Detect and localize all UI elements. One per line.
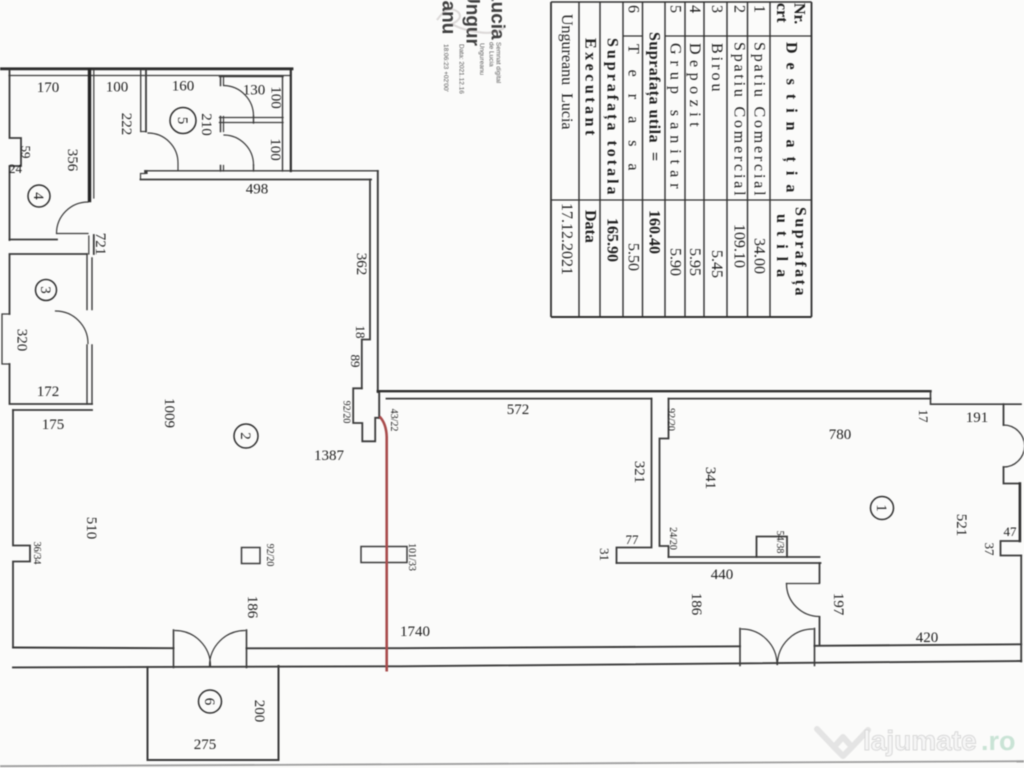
svg-text:420: 420 [916,630,939,646]
svg-text:440: 440 [711,567,734,583]
svg-text:5.45: 5.45 [708,250,725,278]
svg-text:100: 100 [268,86,284,109]
wall 321 [617,399,652,563]
svg-text:Birou: Birou [708,43,725,94]
door room4 leaf [57,233,88,235]
terrace french door arcs [175,631,245,667]
svg-text:.ro: .ro [981,726,1016,756]
svg-text:36/34: 36/34 [31,542,42,565]
svg-text:572: 572 [507,402,530,418]
wall stub below room4 door [93,235,95,254]
svg-text:222: 222 [118,113,134,136]
svg-text:2: 2 [731,5,748,13]
wall band left cap [141,174,146,180]
svg-text:24/20: 24/20 [667,527,678,550]
door jambs right french door [740,629,815,666]
door roomA jamb tick [253,116,255,123]
svg-text:Suprafața totala: Suprafața totala [603,38,621,198]
wall room1 right upper [1019,484,1022,542]
room circle 4 [28,185,50,207]
svg-text:37: 37 [982,543,997,557]
svg-text:59: 59 [19,146,34,159]
wall top inner ceiling line [9,75,290,77]
svg-text:510: 510 [83,517,99,540]
wall 572 bottom line [387,398,652,400]
svg-text:521: 521 [953,514,969,537]
svg-text:100: 100 [267,138,283,161]
svg-text:1740: 1740 [400,624,430,640]
svg-text:5.50: 5.50 [625,243,642,271]
svg-text:109.10: 109.10 [731,224,748,268]
svg-text:lajumate: lajumate [863,725,977,756]
column right edge below 572 line [378,392,380,418]
svg-text:92/20: 92/20 [341,401,352,424]
svg-text:34.00: 34.00 [751,238,768,274]
wall room2 left with niche 36/34 [13,410,30,647]
svg-text:165.90: 165.90 [604,218,621,262]
wall room1 door upper stub [819,563,821,583]
svg-text:Data: Data [582,210,599,243]
door roomB jamb tick [253,165,255,171]
bottom page edge line [0,761,1024,766]
wall top exterior [0,67,292,70]
wall band notch block [144,170,147,174]
wall room4 left with niche 59/24 [10,70,22,240]
door room3 arc [56,311,89,344]
svg-text:5.95: 5.95 [686,248,703,276]
svg-text:160: 160 [172,79,195,95]
wall room1 door lower stub [819,617,821,646]
wall 362 right line [377,171,379,392]
svg-text:2: 2 [237,432,253,440]
svg-text:5: 5 [667,5,684,13]
svg-text:356: 356 [64,149,80,172]
watermark heart W icon [817,729,868,756]
svg-text:341: 341 [702,467,718,490]
svg-text:3: 3 [708,5,725,13]
svg-text:210: 210 [198,113,214,136]
svg-text:197: 197 [830,593,846,616]
svg-text:92/20: 92/20 [665,408,676,431]
door room5 arc [148,133,178,171]
wall 440 top line [669,556,820,558]
wall room5 right / roomsAB left [220,77,222,172]
wall bottom outer line [13,661,1021,667]
door room4 arc [57,202,89,234]
door jambs terrace french door [174,630,247,668]
svg-text:101/33: 101/33 [406,543,417,571]
wall roomsAB top [220,76,284,78]
svg-text:92/20: 92/20 [264,544,275,567]
radiator 101/33 [361,547,407,563]
svg-text:17: 17 [916,410,931,424]
wall roomsAB right [282,77,284,172]
svg-text:170: 170 [37,80,60,96]
svg-text:Depozit: Depozit [686,43,703,132]
svg-text:1: 1 [751,5,768,13]
window room1 bottom jamb [1004,467,1021,484]
svg-text:eanu: eanu [438,0,459,34]
svg-text:320: 320 [14,329,30,352]
svg-text:Grup sanitar: Grup sanitar [667,43,684,195]
room3 right wall double lower [87,345,92,404]
svg-text:362: 362 [353,253,369,276]
wall below room3 [13,409,92,411]
wall 17 step [931,391,1022,404]
svg-text:54/38: 54/38 [774,531,785,554]
room6 terrace box [148,666,279,760]
svg-text:Executant: Executant [582,38,599,139]
svg-text:17.12.2021: 17.12.2021 [558,203,575,275]
svg-text:186: 186 [244,596,260,619]
wall block right exterior [290,70,292,171]
svg-text:Spatiu Comercial: Spatiu Comercial [731,42,748,198]
svg-text:Suprafața utila: Suprafața utila [645,32,663,143]
svg-text:275: 275 [194,737,217,753]
svg-text:Nr.: Nr. [791,3,808,24]
svg-text:498: 498 [246,182,269,198]
svg-text:Suprafața: Suprafața [791,207,809,298]
svg-text:100: 100 [106,80,129,96]
svg-text:Terasa: Terasa [625,44,642,188]
wall bottom inner line [13,644,1021,648]
wall room1 right lower [1020,556,1022,662]
svg-text:4: 4 [30,192,46,200]
svg-text:191: 191 [966,410,989,426]
room3 window niche [2,314,10,364]
svg-text:1387: 1387 [314,448,345,464]
svg-text:6: 6 [201,698,217,706]
svg-text:24: 24 [9,161,23,176]
signature squiggle [437,9,504,33]
svg-text:4: 4 [686,5,703,13]
svg-text:18: 18 [353,326,368,339]
svg-text:77: 77 [626,532,640,547]
right french door arcs [742,629,814,665]
door room1 arc [787,584,820,617]
svg-text:200: 200 [251,700,267,723]
svg-text:5.90: 5.90 [667,248,684,276]
svg-text:6: 6 [625,5,642,13]
svg-text:780: 780 [829,427,852,443]
red cadastre line [380,417,387,672]
wall band 498 top line [145,170,378,172]
svg-text:Data: 2021.12.16: Data: 2021.12.16 [458,44,465,94]
svg-text:de Lucia: de Lucia [488,42,495,67]
pillar 54/38 [757,537,788,558]
svg-text:43/22: 43/22 [388,409,399,432]
svg-text:Ungureanu Lucia: Ungureanu Lucia [558,14,575,130]
column 92/20 43/22 outline [353,388,379,441]
table grid lines [551,2,812,317]
svg-text:3: 3 [37,286,53,294]
wall 440 bottom line [617,562,821,564]
room3 right wall double upper [87,254,92,310]
svg-text:Ungureanu: Ungureanu [478,43,485,76]
wall room1 top inner line [669,398,931,400]
room circle 5 [170,108,196,134]
svg-text:160.40: 160.40 [646,210,663,254]
svg-text:5: 5 [174,117,190,125]
wall niche 47/37 [1001,541,1022,556]
svg-text:Spatiu Comercial: Spatiu Comercial [751,42,768,198]
wall 572 top line [378,390,931,392]
wall stub room4-room3 connector [88,236,90,254]
svg-text:186: 186 [688,593,704,616]
svg-text:crt: crt [773,3,790,23]
window room1 top jamb [1003,404,1005,425]
svg-text:Destinația: Destinația [782,42,800,201]
wall room5 left double [140,70,142,132]
svg-text:18:06:23 +02'00': 18:06:23 +02'00' [442,44,449,92]
wall between roomA roomB double [220,118,284,123]
door roomB arc [224,135,254,165]
pillar 92/20 room2 [242,548,261,564]
svg-text:47: 47 [1004,524,1018,539]
svg-text:31: 31 [597,548,612,561]
svg-text:=: = [646,152,663,161]
svg-text:Semnat digital: Semnat digital [495,42,502,84]
svg-text:Ungur: Ungur [462,0,483,47]
svg-text:1: 1 [873,504,889,512]
wall band 498 bottom line [141,179,372,181]
svg-text:utila: utila [773,214,790,285]
wall 341 with jogs [660,399,669,557]
svg-text:721: 721 [92,233,108,256]
wall room4 bottom [10,239,58,241]
room circle 2 [234,424,258,448]
door roomA arc [224,86,254,117]
svg-text:172: 172 [37,384,60,400]
room circle 3 [36,280,57,301]
door room1 leaf [787,583,820,585]
svg-text:Lucia: Lucia [487,0,508,40]
svg-text:175: 175 [42,417,65,433]
WATERMARK [817,725,1016,756]
svg-text:89: 89 [348,355,363,368]
room circle 1 [871,497,894,520]
room3 box [10,254,93,404]
TABLE [551,2,812,317]
wall 362 left line [362,180,370,389]
svg-text:130: 130 [243,83,266,99]
svg-text:1009: 1009 [161,398,177,428]
room circle 6 [199,690,222,713]
wall room4 right thick [88,70,91,201]
window room1 arcs [1004,425,1024,467]
svg-text:321: 321 [631,461,647,484]
SIGNATURE [437,0,508,94]
wall room4 right thin face [93,70,95,198]
